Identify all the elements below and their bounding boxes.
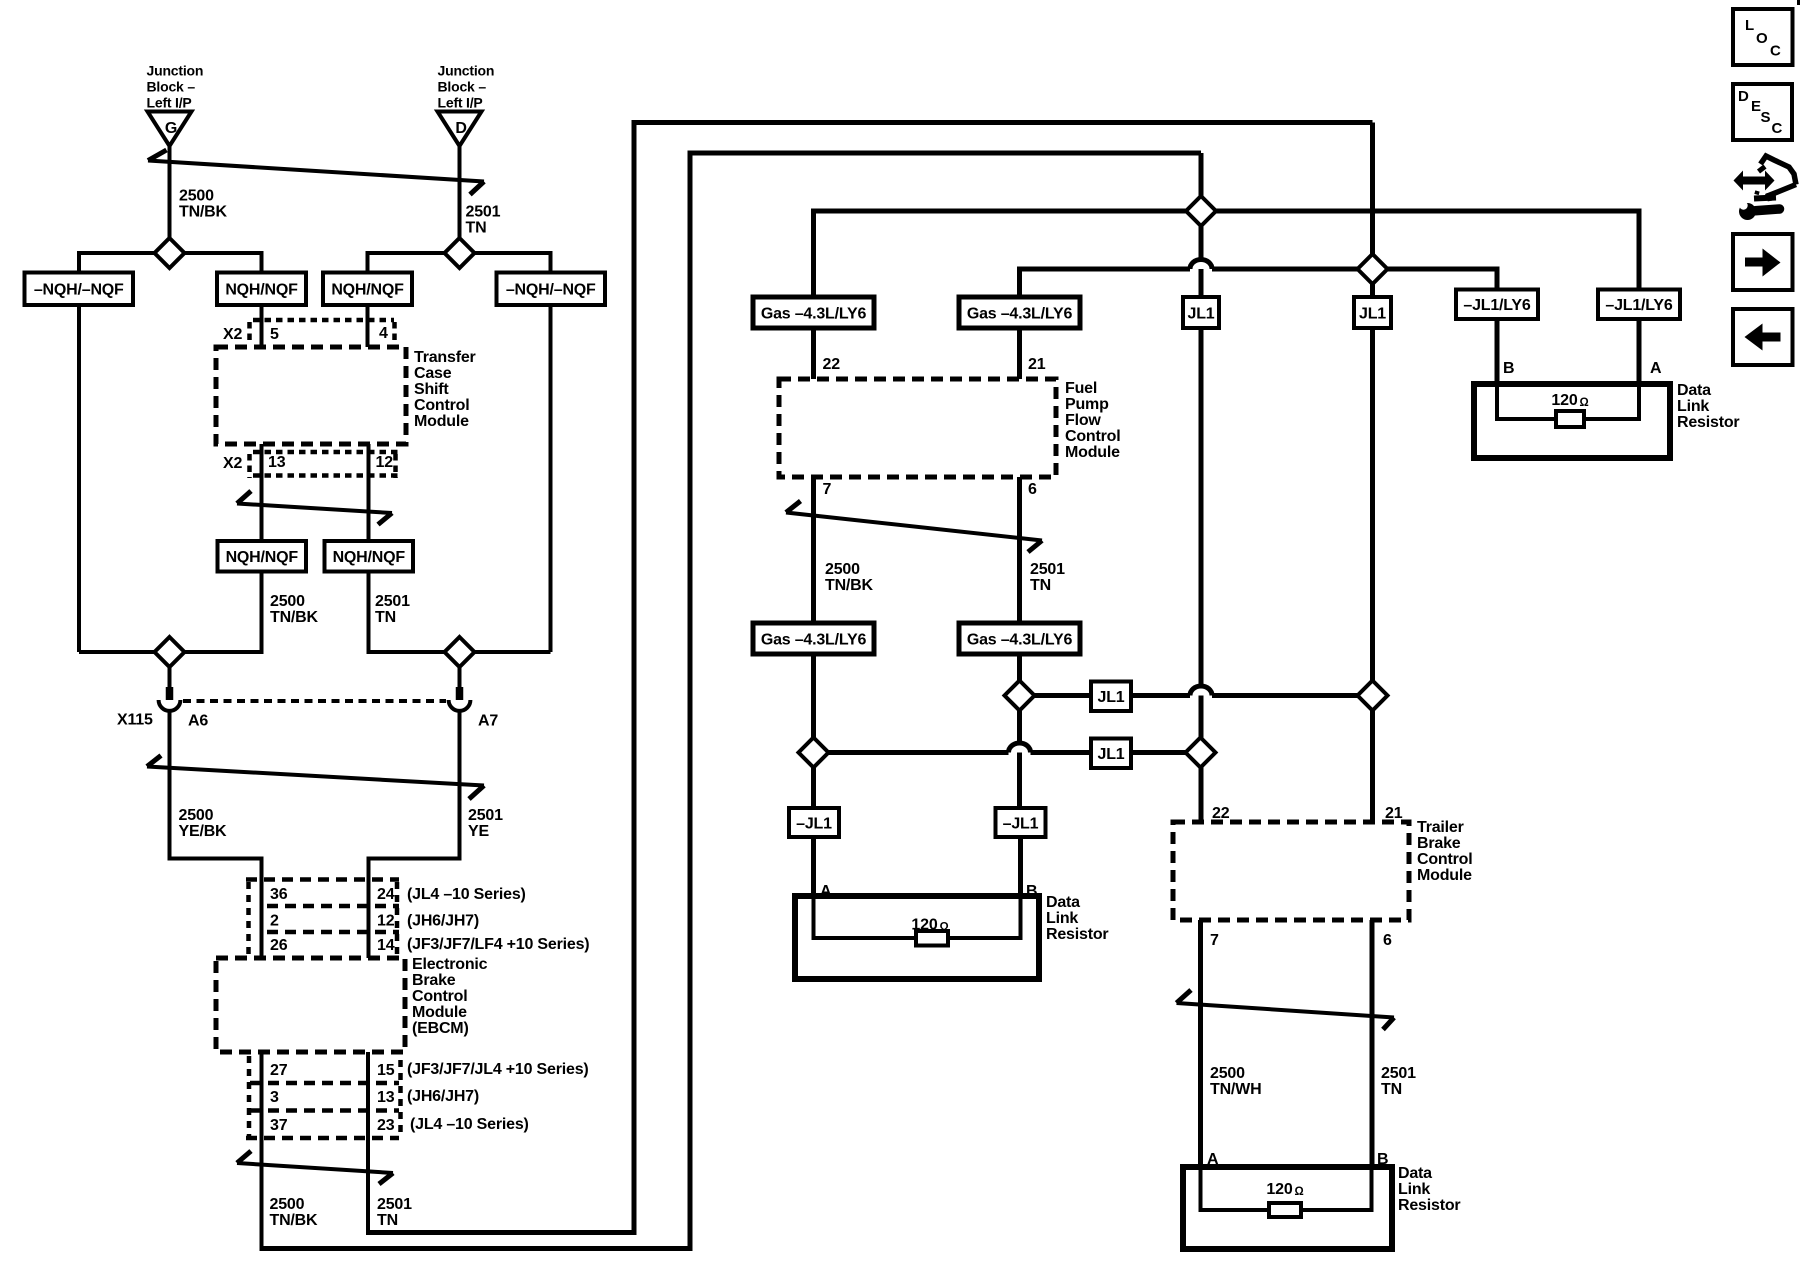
- svg-text:JL1: JL1: [1359, 306, 1386, 323]
- svg-text:Brake: Brake: [1417, 835, 1461, 852]
- svg-text:(JL4 –10 Series): (JL4 –10 Series): [410, 1116, 529, 1133]
- svg-text:Link: Link: [1046, 910, 1078, 927]
- svg-text:Control: Control: [412, 988, 467, 1005]
- svg-text:Gas –4.3L/LY6: Gas –4.3L/LY6: [967, 632, 1073, 649]
- svg-text:Data: Data: [1398, 1165, 1432, 1182]
- svg-text:2500: 2500: [179, 807, 214, 824]
- svg-text:2501: 2501: [466, 204, 501, 221]
- svg-text:7: 7: [823, 481, 832, 498]
- svg-text:A: A: [1207, 1151, 1219, 1168]
- svg-text:Transfer: Transfer: [414, 349, 476, 366]
- svg-text:27: 27: [270, 1062, 288, 1079]
- svg-text:21: 21: [1385, 805, 1403, 822]
- svg-text:Module: Module: [414, 413, 469, 430]
- svg-text:2501: 2501: [375, 593, 410, 610]
- svg-text:Case: Case: [414, 365, 452, 382]
- svg-text:5: 5: [270, 326, 279, 343]
- svg-text:A: A: [1650, 360, 1662, 377]
- svg-text:Left I/P: Left I/P: [147, 95, 192, 111]
- svg-text:Control: Control: [1417, 851, 1472, 868]
- svg-text:(JF3/JF7/JL4 +10 Series): (JF3/JF7/JL4 +10 Series): [407, 1061, 589, 1078]
- svg-text:JL1: JL1: [1188, 306, 1215, 323]
- svg-text:(JH6/JH7): (JH6/JH7): [407, 913, 479, 930]
- svg-text:Resistor: Resistor: [1046, 926, 1108, 943]
- svg-text:2500: 2500: [179, 188, 214, 205]
- svg-text:Module: Module: [1417, 867, 1472, 884]
- svg-text:–NQH/–NQF: –NQH/–NQF: [506, 282, 596, 299]
- svg-text:YE: YE: [468, 823, 489, 840]
- svg-text:Gas –4.3L/LY6: Gas –4.3L/LY6: [967, 306, 1073, 323]
- svg-text:24: 24: [377, 886, 395, 903]
- svg-text:Resistor: Resistor: [1677, 414, 1739, 431]
- svg-text:Junction: Junction: [438, 63, 495, 79]
- svg-text:A: A: [820, 883, 832, 900]
- svg-text:22: 22: [1212, 805, 1230, 822]
- svg-text:Junction: Junction: [147, 63, 204, 79]
- svg-text:Link: Link: [1398, 1181, 1430, 1198]
- svg-text:2500: 2500: [270, 1196, 305, 1213]
- svg-text:B: B: [1503, 360, 1514, 377]
- svg-text:Flow: Flow: [1065, 412, 1101, 429]
- svg-text:Control: Control: [1065, 428, 1120, 445]
- svg-text:(JF3/JF7/LF4 +10 Series): (JF3/JF7/LF4 +10 Series): [407, 936, 589, 953]
- svg-text:TN: TN: [377, 1212, 398, 1229]
- svg-text:–JL1: –JL1: [796, 816, 832, 833]
- svg-text:Resistor: Resistor: [1398, 1197, 1460, 1214]
- svg-text:12: 12: [376, 454, 394, 471]
- svg-text:26: 26: [270, 937, 288, 954]
- svg-text:Control: Control: [414, 397, 469, 414]
- svg-text:X2: X2: [223, 455, 242, 472]
- svg-text:Gas –4.3L/LY6: Gas –4.3L/LY6: [761, 632, 867, 649]
- svg-text:NQH/NQF: NQH/NQF: [333, 549, 406, 566]
- svg-text:G: G: [165, 120, 177, 137]
- svg-text:7: 7: [1210, 932, 1219, 949]
- svg-text:14: 14: [377, 937, 395, 954]
- svg-text:2: 2: [270, 913, 279, 930]
- svg-text:Pump: Pump: [1065, 396, 1109, 413]
- svg-text:Data: Data: [1046, 894, 1080, 911]
- svg-text:TN: TN: [466, 220, 487, 237]
- svg-text:NQH/NQF: NQH/NQF: [331, 282, 404, 299]
- svg-text:36: 36: [270, 886, 288, 903]
- svg-text:13: 13: [377, 1089, 395, 1106]
- svg-text:6: 6: [1383, 932, 1392, 949]
- svg-text:X2: X2: [223, 326, 242, 343]
- svg-text:JL1: JL1: [1098, 689, 1125, 706]
- svg-text:(JL4 –10 Series): (JL4 –10 Series): [407, 886, 526, 903]
- svg-text:Block –: Block –: [147, 79, 196, 95]
- svg-text:TN/BK: TN/BK: [270, 1212, 319, 1229]
- svg-text:4: 4: [379, 325, 388, 342]
- svg-text:13: 13: [268, 454, 286, 471]
- svg-text:Trailer: Trailer: [1417, 819, 1464, 836]
- svg-text:15: 15: [377, 1062, 395, 1079]
- svg-text:Data: Data: [1677, 382, 1711, 399]
- svg-text:2501: 2501: [1381, 1065, 1416, 1082]
- svg-text:(JH6/JH7): (JH6/JH7): [407, 1088, 479, 1105]
- svg-text:NQH/NQF: NQH/NQF: [225, 282, 298, 299]
- svg-text:TN/BK: TN/BK: [179, 204, 228, 221]
- svg-text:2501: 2501: [1030, 561, 1065, 578]
- svg-text:B: B: [1377, 1151, 1388, 1168]
- svg-text:–JL1/LY6: –JL1/LY6: [1463, 297, 1530, 314]
- svg-text:Gas –4.3L/LY6: Gas –4.3L/LY6: [761, 306, 867, 323]
- svg-text:Left I/P: Left I/P: [438, 95, 483, 111]
- svg-text:X115: X115: [117, 712, 153, 729]
- svg-text:2500: 2500: [1210, 1065, 1245, 1082]
- svg-text:(EBCM): (EBCM): [412, 1020, 469, 1037]
- svg-text:–NQH/–NQF: –NQH/–NQF: [34, 282, 124, 299]
- svg-text:A6: A6: [188, 713, 208, 730]
- svg-text:2500: 2500: [825, 561, 860, 578]
- svg-text:TN: TN: [1030, 577, 1051, 594]
- svg-text:Fuel: Fuel: [1065, 380, 1097, 397]
- svg-text:Module: Module: [1065, 444, 1120, 461]
- svg-text:A7: A7: [478, 713, 498, 730]
- svg-text:TN: TN: [375, 609, 396, 626]
- svg-text:2500: 2500: [270, 593, 305, 610]
- svg-text:TN/WH: TN/WH: [1210, 1081, 1261, 1098]
- svg-text:B: B: [1026, 883, 1037, 900]
- svg-text:E: E: [1751, 98, 1761, 115]
- svg-text:S: S: [1761, 109, 1771, 126]
- svg-text:JL1: JL1: [1098, 746, 1125, 763]
- svg-text:C: C: [1772, 120, 1783, 137]
- svg-text:C: C: [1770, 43, 1781, 60]
- svg-text:TN: TN: [1381, 1081, 1402, 1098]
- svg-text:Brake: Brake: [412, 972, 456, 989]
- svg-text:22: 22: [823, 356, 841, 373]
- svg-text:Shift: Shift: [414, 381, 449, 398]
- svg-text:37: 37: [270, 1117, 288, 1134]
- svg-text:12: 12: [377, 913, 395, 930]
- svg-text:Module: Module: [412, 1004, 467, 1021]
- svg-text:2501: 2501: [377, 1196, 412, 1213]
- svg-text:23: 23: [377, 1117, 395, 1134]
- svg-text:3: 3: [270, 1089, 279, 1106]
- svg-text:Block –: Block –: [438, 79, 487, 95]
- svg-text:YE/BK: YE/BK: [179, 823, 228, 840]
- svg-text:L: L: [1745, 17, 1754, 34]
- svg-text:Electronic: Electronic: [412, 956, 488, 973]
- svg-text:2501: 2501: [468, 807, 503, 824]
- svg-text:–JL1/LY6: –JL1/LY6: [1605, 297, 1672, 314]
- svg-text:21: 21: [1028, 356, 1046, 373]
- svg-text:O: O: [1756, 30, 1768, 47]
- svg-text:–JL1: –JL1: [1003, 816, 1039, 833]
- svg-text:6: 6: [1028, 481, 1037, 498]
- svg-text:D: D: [1738, 88, 1749, 105]
- svg-text:Link: Link: [1677, 398, 1709, 415]
- svg-text:NQH/NQF: NQH/NQF: [226, 549, 299, 566]
- svg-text:TN/BK: TN/BK: [825, 577, 874, 594]
- svg-text:TN/BK: TN/BK: [270, 609, 319, 626]
- svg-text:D: D: [455, 120, 466, 137]
